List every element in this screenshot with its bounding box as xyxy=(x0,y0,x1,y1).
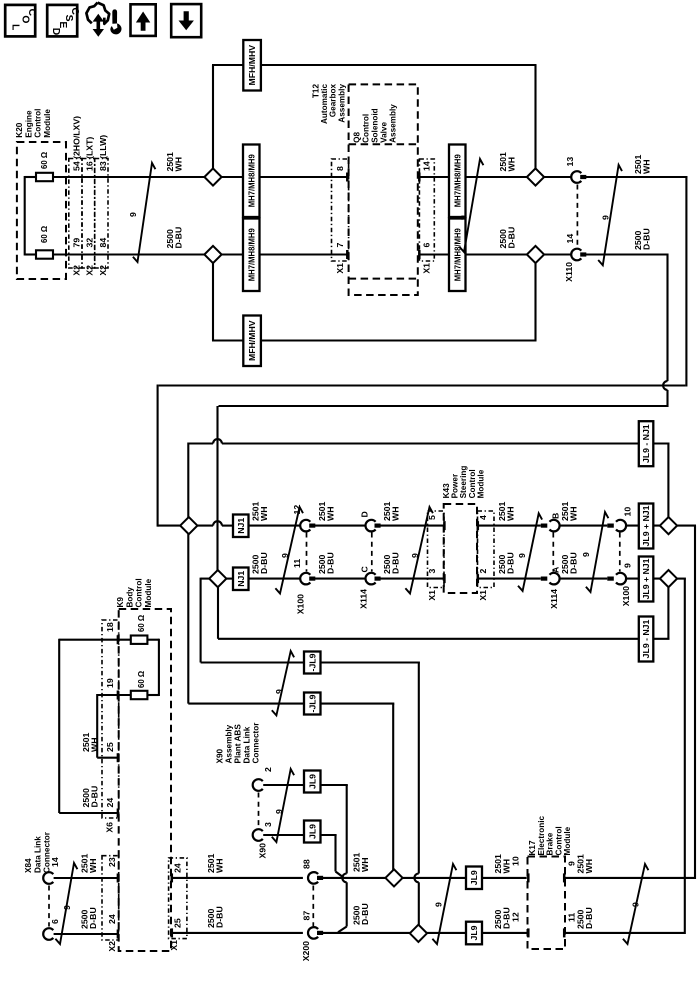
svg-text:X200: X200 xyxy=(301,941,311,961)
toolbar icon pan/adjust with wrench xyxy=(86,3,121,37)
svg-text:WH: WH xyxy=(89,738,99,752)
svg-text:JL9: JL9 xyxy=(469,870,479,885)
svg-text:D-BU: D-BU xyxy=(214,906,224,928)
pin 16 (LXT) / 32, X2 xyxy=(85,137,95,276)
dashed link X100 10/9 xyxy=(619,533,621,572)
wire 2500 D-BU left descent x217.5 xyxy=(216,406,218,571)
svg-text:-JL9: -JL9 xyxy=(307,694,317,712)
dashed link X114 D/C xyxy=(371,533,373,572)
svg-text:87: 87 xyxy=(302,911,312,921)
svg-text:Assembly: Assembly xyxy=(225,724,234,763)
label 2501 WH (before X114 D) xyxy=(317,502,335,521)
resistor 60 ohm (K20 upper, 2501 bus) xyxy=(36,152,53,181)
svg-text:K17: K17 xyxy=(528,840,537,855)
wire 2500 D-BU right descent to mid level xyxy=(158,385,668,527)
module K9 Body Control Module (dashed box) xyxy=(119,609,171,951)
svg-text:JL9: JL9 xyxy=(307,774,317,789)
in-line connector X100 pin 11 xyxy=(292,559,315,615)
pin 4 / 2, X1 (K43 right) xyxy=(478,515,488,601)
label 2500 D-BU (before X100-9) xyxy=(560,552,578,574)
dashed link X84 xyxy=(48,886,50,927)
svg-text:Data Link: Data Link xyxy=(33,836,42,873)
connector pin box X1 at T12 right xyxy=(419,159,434,261)
wire 2500 D-BU from T12 to X110 xyxy=(418,250,571,259)
twisted-pair mark with 9 (right of K17) xyxy=(623,864,649,944)
wire 2501 WH to right diamond xyxy=(626,525,661,527)
svg-text:14: 14 xyxy=(422,161,432,171)
svg-text:3: 3 xyxy=(427,569,437,574)
connector pin box X1 at K43 left xyxy=(428,511,445,588)
svg-text:X6: X6 xyxy=(105,822,115,833)
label 2501 WH (K9 X6-25) xyxy=(81,733,99,752)
svg-text:D-BU: D-BU xyxy=(505,552,515,574)
junction diamond 2500 D-BU row at x218 xyxy=(209,570,226,587)
wire 2501 WH into row diamond xyxy=(158,525,181,527)
dashed link X114 B/A xyxy=(552,533,554,572)
junction diamond on 2500 D-BU at x535 xyxy=(527,246,544,263)
svg-text:JL9 + NJ1: JL9 + NJ1 xyxy=(641,505,651,546)
svg-text:X1: X1 xyxy=(422,263,432,274)
svg-text:JL9 - NJ1: JL9 - NJ1 xyxy=(641,424,651,463)
svg-text:Brake: Brake xyxy=(546,832,555,855)
svg-text:WH: WH xyxy=(505,507,515,521)
harness box MH7/MH8/MH9 on 2500 (right) xyxy=(449,219,466,292)
svg-text:WH: WH xyxy=(390,507,400,521)
harness box MH7/MH8/MH9 on 2501 (right) xyxy=(449,145,466,218)
svg-text:D-BU: D-BU xyxy=(89,786,99,808)
svg-text:9: 9 xyxy=(128,212,138,217)
svg-text:L: L xyxy=(10,24,21,30)
module K20 Engine Control Module (dashed box) xyxy=(17,142,66,279)
wire X6-18 loop to X6-24 xyxy=(59,635,131,817)
in-line connector X114 pin B xyxy=(541,513,561,532)
svg-text:X100: X100 xyxy=(621,586,631,606)
svg-text:D-BU: D-BU xyxy=(568,552,578,574)
svg-text:X1: X1 xyxy=(478,590,488,601)
wire lower loop 2500 via MFH/MHV xyxy=(212,262,537,341)
wire 2501 WH X114 to K43 xyxy=(379,521,446,530)
svg-text:D: D xyxy=(360,511,370,517)
junction diamond bottom 2500 at x418 xyxy=(410,925,427,942)
svg-text:Module: Module xyxy=(43,109,52,138)
twisted-pair mark with 9 (left of diamonds) xyxy=(128,163,155,262)
svg-text:Assembly: Assembly xyxy=(389,104,398,143)
svg-text:Module: Module xyxy=(144,578,153,607)
dashed link X90 xyxy=(258,793,260,828)
wire -JL9 branch from 2500 diamond (left exit) xyxy=(201,578,420,926)
svg-text:79: 79 xyxy=(71,238,81,248)
svg-text:D-BU: D-BU xyxy=(325,552,335,574)
svg-text:6: 6 xyxy=(50,919,60,924)
wire 2501 WH K43 to X114 B xyxy=(477,521,541,530)
label 2501 WH (before X100-10) xyxy=(560,502,578,521)
svg-text:11: 11 xyxy=(292,559,302,568)
wire 2500 D-BU from K17 to right edge xyxy=(563,928,685,937)
svg-text:X2: X2 xyxy=(71,265,81,276)
label 2501 WH (top left) xyxy=(165,152,183,171)
in-line connector X84 pin 6 xyxy=(43,919,60,940)
svg-text:MH7/MH8/MH9: MH7/MH8/MH9 xyxy=(452,154,462,207)
label X90 Assembly Plant ABS Data Link Connector xyxy=(216,722,261,764)
svg-text:13: 13 xyxy=(565,157,575,167)
svg-text:S: S xyxy=(63,15,74,22)
label 2500 D-BU (after X114 C) xyxy=(382,552,400,574)
wire 2501 WH X100 to X114 xyxy=(314,525,366,527)
svg-text:X2: X2 xyxy=(85,265,95,276)
harness box MFH/MHV (top) xyxy=(243,40,261,91)
svg-text:Data Link: Data Link xyxy=(243,726,252,763)
wire 2500 D-BU bottom row from K9 to X200 xyxy=(171,928,303,937)
svg-text:C: C xyxy=(360,566,370,573)
svg-text:2: 2 xyxy=(263,767,273,772)
wire 2501 WH right descent to mid level xyxy=(159,384,686,386)
wire 2501 WH from T12 to X110 xyxy=(418,173,571,182)
module T12 Automatic Gearbox Assembly (dashed box) xyxy=(349,84,418,295)
wire 2500 D-BU to right diamond xyxy=(626,578,661,580)
svg-text:4: 4 xyxy=(478,515,488,520)
pin 83 (LLW) / 84, X2 xyxy=(98,135,108,276)
twisted-pair mark with 9 (after K43) xyxy=(517,513,542,591)
in-line connector X90 pin 3 xyxy=(253,822,273,858)
label 2501 WH (X84-14) xyxy=(80,854,98,873)
svg-text:X2: X2 xyxy=(98,265,108,276)
label K9 Body Control Module xyxy=(116,578,153,607)
wire 2501 WH bottom row X200 to K17 xyxy=(322,873,530,882)
label 2500 D-BU (right of K17) xyxy=(576,907,594,929)
wire K20 termination bridge xyxy=(25,176,36,256)
label K17 Electronic Brake Control Module xyxy=(528,815,572,855)
label K43 Power Steering Control Module xyxy=(442,466,485,499)
in-line connector X110 pin 13 on 2501 WH xyxy=(565,157,586,183)
svg-text:B: B xyxy=(551,513,561,519)
svg-text:E: E xyxy=(57,21,68,28)
svg-text:D-BU: D-BU xyxy=(88,907,98,929)
connector pin box X1 at T12 left xyxy=(332,159,349,261)
svg-text:Module: Module xyxy=(476,469,485,498)
pins 9/11 (K17 right) xyxy=(567,861,577,922)
wire 2500 D-BU row to NJ1 xyxy=(226,578,235,580)
wire 2500 D-BU bottom row X200 to K17 xyxy=(322,928,530,937)
twisted-pair mark with 9 (before K43) xyxy=(405,507,433,594)
svg-text:54 (2HO/LXV): 54 (2HO/LXV) xyxy=(71,116,81,171)
svg-text:WH: WH xyxy=(88,859,98,873)
junction diamond bottom 2501 at x394 xyxy=(385,869,402,886)
pins 24/25 X1 (K9 right) xyxy=(169,863,183,951)
wire X84-6 to K9 X2-24 xyxy=(54,930,120,939)
svg-text:9: 9 xyxy=(62,905,72,910)
pin 54 (2HO/LXV) / 79, X2 xyxy=(71,116,81,276)
wire 2500 D-BU K43 to X114 A xyxy=(477,574,541,583)
label 2500 D-BU (before X114 C) xyxy=(317,552,335,574)
hop of 2500 vertical over 2501 horizontal xyxy=(663,381,667,407)
svg-text:D-BU: D-BU xyxy=(173,227,183,249)
svg-text:X100: X100 xyxy=(296,594,306,614)
splice box JL9 + NJ1 (2501) xyxy=(639,504,654,549)
svg-text:X90: X90 xyxy=(258,843,268,859)
svg-text:25: 25 xyxy=(173,918,183,928)
svg-text:-JL9: -JL9 xyxy=(307,653,317,671)
label X84 Data Link Connector xyxy=(24,831,52,873)
label 2501 WH (K9 right) xyxy=(206,854,224,873)
wire top loop 2501 via MFH/MHV xyxy=(212,65,537,170)
junction diamond 2501 WH row at x188 xyxy=(180,517,197,534)
svg-text:14: 14 xyxy=(565,234,575,244)
svg-text:2: 2 xyxy=(478,569,488,574)
twisted-pair mark with 9 (after X100) xyxy=(275,507,303,594)
twisted-pair mark with 9 (right of MH boxes) xyxy=(458,159,483,252)
wire 2501 WH X114B to X100-10 xyxy=(560,525,607,527)
svg-text:NJ1: NJ1 xyxy=(236,571,246,587)
wire 2500 D-BU bus from K20 to T12 xyxy=(53,250,349,259)
label 2501 WH (after X114 D) xyxy=(382,502,400,521)
junction diamond right 2500 xyxy=(660,570,677,587)
svg-text:D-BU: D-BU xyxy=(259,552,269,574)
svg-text:X114: X114 xyxy=(549,589,559,609)
connector pin box X6 at K9 left xyxy=(102,620,119,818)
label 2500 D-BU (before K17) xyxy=(493,907,511,929)
svg-text:C: C xyxy=(26,9,37,17)
svg-text:WH: WH xyxy=(173,157,183,171)
svg-text:Control: Control xyxy=(135,578,144,607)
wire 2501 WH row to NJ1 xyxy=(197,521,235,525)
label 2500 D-BU (K9 X6-24) xyxy=(81,786,99,808)
svg-text:9: 9 xyxy=(458,215,468,220)
twisted-pair mark with 9 (before X100-10) xyxy=(581,512,608,592)
wire X6-19 loop to X6-25 xyxy=(97,691,131,763)
svg-text:10: 10 xyxy=(623,507,633,517)
pins 18/19/25/24 X6 xyxy=(105,622,116,832)
pin 14 / 6, X1 (T12 right) xyxy=(422,161,432,273)
svg-text:JL9 + NJ1: JL9 + NJ1 xyxy=(641,558,651,599)
svg-text:D-BU: D-BU xyxy=(584,907,594,929)
svg-text:9: 9 xyxy=(623,563,633,568)
svg-text:WH: WH xyxy=(641,160,651,174)
pins 10/12 (K17 left) xyxy=(511,856,521,922)
svg-text:X90: X90 xyxy=(216,748,225,763)
svg-text:12: 12 xyxy=(511,912,521,922)
svg-text:Assembly: Assembly xyxy=(337,84,346,123)
svg-text:D-BU: D-BU xyxy=(390,552,400,574)
toolbar button scroll-up xyxy=(131,4,156,36)
svg-text:23: 23 xyxy=(107,857,117,867)
svg-text:K9: K9 xyxy=(116,597,125,608)
pins 23/24 X2 xyxy=(107,857,117,951)
connector pin box X2 at K9 left bottom xyxy=(102,856,119,940)
svg-text:14: 14 xyxy=(50,857,60,867)
svg-text:5: 5 xyxy=(427,515,437,520)
label 2500 D-BU (bottom mid) xyxy=(352,903,370,925)
connector pin boxes X2 at K20 (three variants) xyxy=(69,159,108,269)
svg-text:24: 24 xyxy=(107,914,117,924)
harness box MFH/MHV (lower) xyxy=(243,316,261,367)
splice box NJ1 (2500) xyxy=(233,568,249,591)
svg-text:25: 25 xyxy=(105,742,115,752)
resistor 60 ohm (K9 upper) xyxy=(131,615,148,644)
label 2501 WH (top right) xyxy=(633,155,651,174)
svg-text:60 Ω: 60 Ω xyxy=(40,152,49,169)
label 2501 WH (right of K17) xyxy=(576,854,594,873)
svg-text:JL9: JL9 xyxy=(307,824,317,839)
svg-text:84: 84 xyxy=(98,238,108,248)
svg-text:9: 9 xyxy=(581,552,591,557)
svg-text:9: 9 xyxy=(274,809,284,814)
svg-text:9: 9 xyxy=(517,553,527,558)
in-line connector X114 pin A xyxy=(541,566,561,609)
svg-text:JL9: JL9 xyxy=(469,925,479,940)
wire -JL9 branch from 2501 diamond (bottom exit) xyxy=(188,534,394,871)
twisted-pair mark with 9 (X84) xyxy=(55,863,77,944)
twisted-pair mark with 9 (before K17) xyxy=(432,864,456,944)
wire 2501 WH from X110 to right edge xyxy=(585,177,688,387)
svg-text:WH: WH xyxy=(568,507,578,521)
svg-text:6: 6 xyxy=(422,243,432,248)
resistor 60 ohm (K20 lower, 2500 bus) xyxy=(36,226,53,259)
label Q8 Control Solenoid Valve Assembly xyxy=(353,104,398,143)
svg-text:A: A xyxy=(551,566,561,573)
label 2500 D-BU (row, after NJ1) xyxy=(251,552,269,574)
svg-text:X114: X114 xyxy=(359,589,369,609)
wire 2500 D-BU X114A to X100-9 xyxy=(560,578,607,580)
svg-text:WH: WH xyxy=(259,507,269,521)
junction diamond on 2500 D-BU at x213 xyxy=(204,246,221,263)
splice box JL9 (2500 bottom) xyxy=(466,922,482,945)
svg-text:16 (LXT): 16 (LXT) xyxy=(85,137,95,171)
svg-text:Electronic: Electronic xyxy=(537,815,546,855)
in-line connector X84 pin 14 xyxy=(43,857,60,884)
svg-text:NJ1: NJ1 xyxy=(236,518,246,534)
wire right diamond 2500 to right edge descent xyxy=(676,579,686,934)
twisted-pair mark with 9 (right of X110) xyxy=(598,165,622,265)
svg-text:32: 32 xyxy=(85,238,95,248)
svg-text:24: 24 xyxy=(173,863,183,873)
twisted-pair mark with 9 (X90) xyxy=(272,769,294,842)
svg-text:O: O xyxy=(19,15,30,23)
in-line connector X200 pin 87 xyxy=(301,911,323,962)
svg-text:Control: Control xyxy=(34,109,43,138)
wire JL9-NJ1 upper branch xyxy=(188,439,669,518)
svg-text:Control: Control xyxy=(362,114,371,143)
svg-text:Module: Module xyxy=(563,826,572,855)
splice box JL9 - NJ1 (upper) xyxy=(639,421,654,466)
svg-text:60 Ω: 60 Ω xyxy=(137,671,146,688)
splice box JL9 (X90-2) xyxy=(304,771,321,793)
svg-text:D-BU: D-BU xyxy=(641,228,651,250)
svg-text:88: 88 xyxy=(302,859,312,869)
svg-text:60 Ω: 60 Ω xyxy=(137,615,146,632)
svg-text:60 Ω: 60 Ω xyxy=(40,226,49,243)
svg-text:9: 9 xyxy=(280,553,290,558)
wire 2500 D-BU to X100-11 xyxy=(249,578,301,580)
dashed link X200 xyxy=(312,886,314,927)
svg-text:24: 24 xyxy=(105,798,115,808)
in-line connector X114 pin D xyxy=(360,511,381,531)
pin 8 / 7, X1 (T12 left) xyxy=(335,166,345,274)
wire 2500 D-BU X100 to X114 xyxy=(314,578,366,580)
connector pin box X1 at K43 right xyxy=(478,511,495,588)
svg-text:9: 9 xyxy=(410,553,420,558)
svg-text:WH: WH xyxy=(325,507,335,521)
label 2500 D-BU (after K43) xyxy=(497,552,515,574)
splice box JL9 + NJ1 (2500) xyxy=(639,557,654,602)
svg-text:MFH/MHV: MFH/MHV xyxy=(247,45,257,86)
pin 5 / 3, X1 (K43 left) xyxy=(427,515,437,601)
module K17 Electronic Brake Control Module (dashed box) xyxy=(528,857,566,950)
in-line connector X100 pin 12 xyxy=(292,505,315,532)
junction diamond right 2501 xyxy=(660,517,677,534)
svg-text:19: 19 xyxy=(105,678,115,688)
module K43 Power Steering Control Module (dashed box) xyxy=(444,504,477,593)
svg-text:WH: WH xyxy=(214,859,224,873)
harness box MH7/MH8/MH9 on 2500 (left) xyxy=(243,219,260,292)
svg-text:3: 3 xyxy=(263,822,273,827)
svg-text:K20: K20 xyxy=(15,122,24,137)
label 2501 WH (bottom mid) xyxy=(352,853,370,872)
wire 2500 D-BU from X110 to right edge xyxy=(585,254,668,382)
dashed link X110 xyxy=(576,185,578,248)
svg-text:9: 9 xyxy=(274,689,284,694)
svg-text:9: 9 xyxy=(434,902,444,907)
connector pin box X1 at K9 right xyxy=(169,858,187,939)
wire X90-2 JL9 branch xyxy=(263,785,348,932)
svg-text:Valve: Valve xyxy=(380,122,389,143)
svg-text:D: D xyxy=(50,28,61,35)
wire JL9-NJ1 lower branch xyxy=(218,587,670,639)
wire 2501 WH from K17 to right edge xyxy=(563,873,695,882)
in-line connector X110 pin 14 on 2500 D-BU xyxy=(564,234,586,282)
svg-text:MH7/MH8/MH9: MH7/MH8/MH9 xyxy=(246,228,256,281)
svg-text:Engine: Engine xyxy=(24,110,33,138)
splice box JL9 - NJ1 (lower) xyxy=(639,617,654,662)
svg-text:10: 10 xyxy=(511,856,521,866)
in-line connector X100 pin 9 xyxy=(607,563,632,606)
label 2501 WH (before K17) xyxy=(493,854,511,873)
wire K9 termination bridge xyxy=(147,639,159,696)
svg-text:WH: WH xyxy=(506,157,516,171)
wire X90-3 JL9 branch xyxy=(263,835,343,878)
in-line connector X114 pin C xyxy=(359,566,381,609)
in-line connector X90 pin 2 xyxy=(253,767,273,791)
resistor 60 ohm (K9 lower) xyxy=(131,671,148,699)
wire 2501 WH bus from K20 to T12 xyxy=(53,173,349,182)
svg-text:D-BU: D-BU xyxy=(506,227,516,249)
label 2501 WH (before diamond2) xyxy=(498,152,516,171)
splice box JL9 (2501 bottom) xyxy=(466,867,482,890)
svg-text:MH7/MH8/MH9: MH7/MH8/MH9 xyxy=(452,228,462,281)
label 2500 D-BU (X84-6) xyxy=(80,907,98,929)
wire 2500 D-BU X114 to K43 xyxy=(379,574,446,583)
twisted-pair mark with 9 (-JL9 branches) xyxy=(272,651,294,715)
svg-text:X84: X84 xyxy=(24,858,33,873)
svg-text:7: 7 xyxy=(335,243,345,248)
wire 2501 WH to X100-12 xyxy=(249,525,301,527)
splice box -JL9 (2500 branch) xyxy=(304,652,321,674)
svg-text:C: C xyxy=(69,7,80,15)
splice box -JL9 (2501 branch) xyxy=(304,693,321,715)
svg-text:9: 9 xyxy=(631,902,641,907)
svg-text:8: 8 xyxy=(335,166,345,171)
label 2501 WH (after K43) xyxy=(497,502,515,521)
toolbar button scroll-down xyxy=(171,4,201,37)
svg-text:83 (LLW): 83 (LLW) xyxy=(98,135,108,171)
svg-text:WH: WH xyxy=(584,859,594,873)
toolbar button LOC xyxy=(5,5,37,37)
wire X84-14 to K9 X2-23 xyxy=(54,874,120,883)
svg-text:Body: Body xyxy=(125,587,134,608)
svg-text:X1: X1 xyxy=(169,940,179,951)
svg-text:Q8: Q8 xyxy=(353,132,362,143)
in-line connector X100 pin 10 xyxy=(607,507,632,532)
splice box JL9 (X90-3) xyxy=(304,821,321,843)
